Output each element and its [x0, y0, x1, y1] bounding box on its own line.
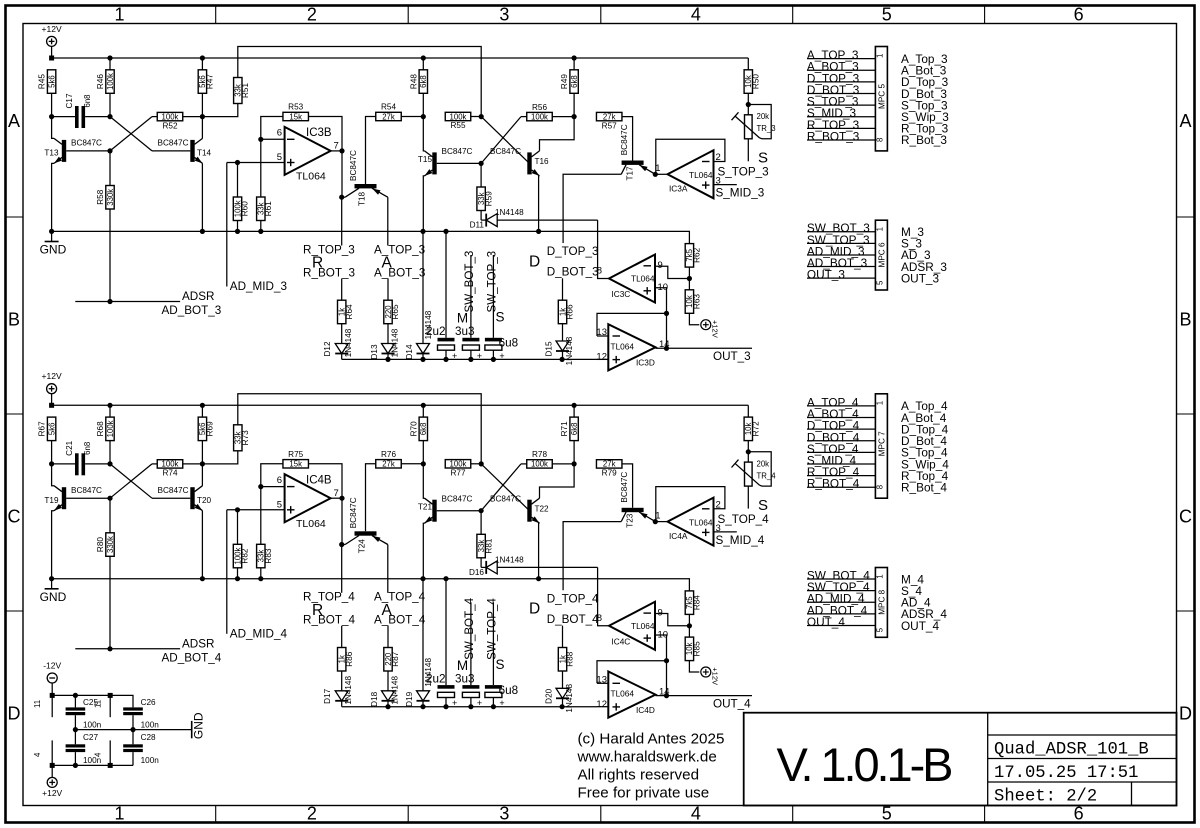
- svg-text:SW_TOP_4: SW_TOP_4: [486, 598, 499, 660]
- svg-text:S: S: [496, 310, 505, 325]
- net label R_TOP_3: [303, 197, 355, 256]
- resistor R88 1k: [558, 648, 574, 689]
- pin 4 stub TL064 (IC3): [33, 740, 52, 765]
- svg-text:1: 1: [114, 804, 124, 824]
- resistor R79 27k: [596, 460, 632, 508]
- capacitor 2u2 (M cap) channel 3: [426, 231, 457, 362]
- svg-text:R70: R70: [409, 421, 418, 436]
- trimmer TR_4 20k: [732, 452, 777, 509]
- svg-text:M: M: [457, 311, 468, 326]
- wire MPC 6 pin 3 AD_MID_3: [807, 244, 876, 258]
- power +12V supply (caps): [42, 763, 62, 798]
- svg-text:V. 1.0.1-B: V. 1.0.1-B: [777, 738, 954, 791]
- wire pin3 IC3A S_MID_3: [714, 184, 737, 186]
- wire pin3 IC4A S_MID_4: [714, 531, 737, 533]
- svg-text:7: 7: [334, 141, 339, 152]
- wire AD_MID_3: [226, 163, 228, 287]
- diode D11 1N4148: [470, 208, 598, 230]
- svg-text:OUT_4: OUT_4: [807, 615, 845, 629]
- svg-text:D: D: [1179, 704, 1192, 724]
- svg-text:3u3: 3u3: [455, 672, 475, 685]
- svg-text:IC3C: IC3C: [611, 289, 630, 299]
- svg-text:C21: C21: [65, 440, 74, 455]
- svg-text:T14: T14: [197, 149, 212, 158]
- svg-text:T23: T23: [626, 513, 635, 528]
- transistor T14 BC847C: [158, 117, 212, 232]
- transistor T24 BC847C rotated: [342, 464, 388, 554]
- svg-text:S: S: [758, 497, 768, 514]
- resistor R57 27k: [596, 112, 632, 160]
- connector MPC 7: [875, 394, 887, 498]
- svg-text:SW_BOT_3: SW_BOT_3: [463, 251, 476, 313]
- svg-text:330k: 330k: [106, 189, 115, 206]
- svg-text:R_TOP_4: R_TOP_4: [303, 591, 355, 604]
- wire MPC 7 pin 5 S_TOP_4: [807, 442, 876, 456]
- svg-text:R49: R49: [560, 74, 569, 89]
- resistor R65 220: [384, 300, 400, 343]
- wire inverting input pin6 IC4B: [258, 484, 284, 489]
- resistor R64 1k: [338, 300, 354, 343]
- op-amp IC4A TL064: [655, 498, 721, 546]
- wire pin12 stub IC3D: [597, 358, 608, 360]
- resistor R85 10k: [685, 626, 701, 672]
- transistor T22 BC847C: [490, 464, 574, 579]
- svg-text:OUT_3: OUT_3: [901, 271, 939, 285]
- svg-text:IC3D: IC3D: [636, 358, 655, 368]
- svg-text:R54: R54: [381, 103, 396, 112]
- svg-text:100k: 100k: [106, 73, 115, 90]
- svg-text:2: 2: [307, 5, 317, 25]
- net label D_BOT_4 wire: [562, 626, 564, 648]
- svg-text:R76: R76: [381, 450, 396, 459]
- wire MPC 5 pin 3 D_TOP_3: [807, 71, 876, 85]
- diode D16 1N4148: [469, 555, 598, 577]
- svg-text:All rights reserved: All rights reserved: [578, 767, 700, 784]
- svg-text:S: S: [496, 657, 505, 672]
- capacitor C25 100n: [66, 695, 102, 729]
- node collector T13: [49, 114, 54, 119]
- svg-text:D_TOP_4: D_TOP_4: [547, 592, 599, 605]
- net label D_BOT_3 wire: [562, 278, 564, 300]
- diode D18 1N4148: [370, 676, 400, 710]
- svg-text:BC847C: BC847C: [490, 147, 521, 156]
- svg-text:1N4148: 1N4148: [495, 555, 524, 564]
- svg-text:BC847C: BC847C: [620, 124, 629, 155]
- svg-text:OUT_4: OUT_4: [901, 619, 939, 633]
- svg-text:3: 3: [499, 804, 509, 824]
- svg-text:R55: R55: [450, 121, 465, 130]
- op-amp IC3C TL064: [597, 255, 668, 303]
- svg-text:ADSR: ADSR: [182, 637, 214, 650]
- wire D11 to pin8 IC3C: [598, 220, 610, 278]
- svg-text:+12V: +12V: [711, 320, 720, 338]
- wire pin13 IC4D feedback: [597, 661, 667, 684]
- op-amp IC3D TL064: [596, 324, 669, 370]
- svg-text:TL064: TL064: [296, 518, 326, 530]
- svg-text:+12V: +12V: [711, 667, 720, 685]
- pin 11 stub TL064 (IC4): [94, 695, 111, 717]
- op-amp IC4C TL064: [597, 602, 668, 650]
- connector MPC 5: [875, 47, 887, 151]
- wire pin13 IC3D feedback: [597, 313, 667, 336]
- svg-text:T22: T22: [535, 504, 550, 513]
- svg-text:AD_MID_4: AD_MID_4: [230, 627, 288, 640]
- resistor R47 5k6: [198, 58, 214, 117]
- transistor T21 BC847C: [418, 464, 484, 579]
- svg-text:D: D: [529, 601, 540, 618]
- svg-text:5: 5: [875, 627, 884, 632]
- svg-text:R67: R67: [38, 421, 47, 436]
- wire MPC 8 pin 2 SW_TOP_4: [807, 580, 876, 594]
- copyright text: [577, 731, 725, 802]
- wire inverting input pin6 IC3B: [258, 137, 284, 142]
- trimmer TR_3 20k: [732, 105, 776, 162]
- wire output pin1 IC4A to T23: [653, 519, 667, 524]
- svg-text:6n8: 6n8: [83, 94, 92, 107]
- svg-text:6k8: 6k8: [419, 423, 428, 436]
- svg-text:1N4148: 1N4148: [391, 328, 400, 357]
- diode D15 1N4148: [545, 336, 575, 365]
- svg-text:1N4148: 1N4148: [495, 208, 524, 217]
- power +12V channel 4: [42, 371, 62, 408]
- svg-text:IC3B: IC3B: [306, 127, 332, 139]
- wire emitter T23 to D_TOP_4: [563, 522, 621, 591]
- wire MPC 6 pin 5 OUT_3: [807, 268, 876, 282]
- wire output pin14 IC4D OUT_4: [656, 693, 753, 698]
- wire output pin7 IC3B: [331, 148, 345, 200]
- wire pin9 IC4C to R62/R63 node: [655, 614, 692, 629]
- svg-text:T20: T20: [197, 496, 212, 505]
- diode D12 1N4148: [323, 328, 353, 359]
- svg-text:R46: R46: [96, 74, 105, 89]
- svg-text:R64: R64: [345, 304, 354, 319]
- svg-text:R50: R50: [752, 74, 761, 89]
- resistor R69 5k6: [198, 405, 214, 464]
- svg-text:5k6: 5k6: [47, 423, 56, 436]
- svg-text:R79: R79: [602, 469, 617, 478]
- svg-text:R71: R71: [560, 421, 569, 436]
- svg-text:4: 4: [691, 5, 701, 25]
- svg-text:R60: R60: [241, 201, 250, 216]
- wire cross-coupling T15/T16: [481, 117, 529, 164]
- svg-text:4: 4: [94, 752, 103, 757]
- svg-text:100k: 100k: [531, 112, 548, 121]
- wire pin13 stub IC4D: [597, 682, 608, 684]
- svg-text:27k: 27k: [382, 112, 395, 121]
- svg-text:A_BOT_4: A_BOT_4: [374, 614, 426, 627]
- svg-text:R53: R53: [288, 103, 303, 112]
- svg-text:BC847C: BC847C: [158, 486, 189, 495]
- svg-text:S_MID_4: S_MID_4: [716, 534, 765, 547]
- svg-text:100n: 100n: [83, 721, 102, 730]
- svg-text:SW_TOP_3: SW_TOP_3: [486, 251, 499, 313]
- svg-text:-12V: -12V: [43, 661, 61, 671]
- resistor R52 100k: [157, 112, 202, 130]
- capacitor C21 6n8: [52, 440, 110, 475]
- svg-text:OUT_3: OUT_3: [713, 350, 751, 363]
- svg-text:AD_MID_3: AD_MID_3: [230, 280, 287, 293]
- svg-text:8: 8: [875, 485, 884, 489]
- svg-text:R_Bot_4: R_Bot_4: [901, 481, 947, 495]
- svg-text:11: 11: [33, 700, 42, 708]
- svg-text:R75: R75: [288, 450, 303, 459]
- pin 4 stub TL064 (IC4): [94, 740, 111, 765]
- svg-text:6: 6: [277, 128, 282, 139]
- resistor R84 7k5: [685, 591, 701, 626]
- svg-text:BC847C: BC847C: [620, 472, 629, 503]
- svg-text:6k8: 6k8: [570, 75, 579, 88]
- resistor R74 100k: [157, 460, 202, 478]
- wire MPC 7 pin 6 S_MID_4: [807, 454, 876, 468]
- svg-text:12: 12: [596, 352, 607, 363]
- svg-text:1N4148: 1N4148: [391, 676, 400, 705]
- wire MPC 5 pin 2 A_BOT_3: [807, 60, 876, 74]
- svg-text:A: A: [1179, 111, 1191, 131]
- svg-text:OUT_3: OUT_3: [807, 268, 845, 282]
- svg-text:B: B: [8, 310, 20, 330]
- svg-text:(c) Harald Antes 2025: (c) Harald Antes 2025: [578, 731, 725, 748]
- svg-text:2: 2: [307, 804, 317, 824]
- wire pin9 IC3C to R62/R63 node: [655, 266, 692, 281]
- wire MPC 6 pin 4 AD_BOT_3: [807, 256, 876, 270]
- svg-text:1N4148: 1N4148: [344, 328, 353, 357]
- svg-text:S: S: [758, 150, 768, 167]
- svg-text:TL064: TL064: [611, 341, 635, 351]
- svg-text:9: 9: [658, 260, 663, 271]
- resistor R56 100k: [527, 103, 577, 122]
- svg-text:IC4B: IC4B: [306, 474, 332, 486]
- svg-text:R65: R65: [391, 304, 400, 319]
- svg-text:5: 5: [882, 804, 892, 824]
- svg-text:6k8: 6k8: [419, 75, 428, 88]
- wire MPC 7 pin 2 A_BOT_4: [807, 407, 876, 421]
- resistor R76 27k: [376, 450, 426, 469]
- svg-text:T19: T19: [44, 496, 59, 505]
- svg-text:+12V: +12V: [42, 24, 62, 34]
- resistor R62 7k5: [685, 244, 701, 279]
- capacitor C26 100n: [123, 698, 159, 729]
- wire pin10 IC3C: [655, 288, 669, 349]
- svg-text:100k: 100k: [450, 112, 467, 121]
- wire -12V rail: [52, 693, 133, 708]
- node collector T14: [200, 114, 205, 119]
- svg-text:T21: T21: [418, 502, 433, 511]
- svg-text:330k: 330k: [106, 536, 115, 553]
- svg-text:GND: GND: [192, 712, 206, 739]
- svg-text:IC4D: IC4D: [636, 705, 655, 715]
- wire MPC 5 pin 5 S_TOP_3: [807, 95, 876, 109]
- wire MPC 8 pin 5 OUT_4: [807, 615, 876, 629]
- diode D13 1N4148: [370, 328, 400, 362]
- wire emitter T17 to D_TOP_3: [563, 174, 621, 243]
- resistor R70 6k8: [409, 405, 428, 464]
- svg-text:T24: T24: [358, 539, 367, 554]
- svg-text:1N4148: 1N4148: [565, 336, 574, 365]
- wire non-inverting input pin5 IC3B: [227, 160, 285, 165]
- wire MPC 7 pin 3 D_TOP_4: [807, 419, 876, 433]
- resistor R58 330k: [96, 151, 115, 302]
- svg-text:8: 8: [597, 266, 602, 277]
- svg-text:D20: D20: [545, 688, 554, 703]
- diode D20 1N4148: [545, 684, 575, 713]
- resistor R86 1k: [338, 648, 354, 691]
- wire MPC 7 pin 1 A_TOP_4: [807, 395, 876, 409]
- ground symbol (caps): [191, 721, 193, 738]
- net label A_TOP_4: [374, 545, 426, 604]
- net label A_TOP_3: [374, 197, 425, 256]
- wire AD_MID_4: [226, 510, 228, 634]
- resistor R71 6k8: [560, 405, 579, 464]
- wire MPC 5 pin 1 A_TOP_3: [807, 48, 876, 62]
- wire cross-coupling T13/T14: [107, 117, 190, 154]
- svg-text:D_TOP_3: D_TOP_3: [547, 245, 599, 258]
- svg-text:TL064: TL064: [631, 621, 655, 631]
- svg-text:D_BOT_4: D_BOT_4: [547, 613, 599, 626]
- wire cross-coupling T21/T22: [481, 464, 529, 511]
- svg-text:D19: D19: [405, 691, 414, 706]
- svg-text:www.haraldswerk.de: www.haraldswerk.de: [577, 749, 717, 766]
- svg-text:R59: R59: [484, 191, 493, 206]
- svg-text:6: 6: [1074, 5, 1084, 25]
- svg-text:S_TOP_3: S_TOP_3: [718, 166, 769, 179]
- svg-text:D11: D11: [470, 221, 485, 230]
- capacitor 3u3 (M cap) channel 3: [455, 251, 482, 362]
- svg-text:R68: R68: [96, 421, 105, 436]
- op-amp IC3B TL064: [277, 127, 339, 183]
- wire MPC 5 pin 8 R_BOT_3: [807, 129, 876, 143]
- capacitor C28 100n: [123, 730, 159, 766]
- svg-text:C26: C26: [141, 698, 156, 707]
- wire cross-coupling T19/T20: [107, 464, 190, 501]
- svg-text:R84: R84: [693, 595, 702, 610]
- capacitor 6u8 (S cap) channel 3: [485, 251, 518, 362]
- svg-text:R52: R52: [162, 121, 177, 130]
- wire MPC 7 pin 8 R_BOT_4: [807, 477, 876, 491]
- svg-text:R51: R51: [241, 83, 250, 98]
- svg-text:D16: D16: [469, 568, 484, 577]
- svg-text:TL064: TL064: [689, 517, 713, 527]
- resistor R83 33k: [257, 487, 273, 579]
- svg-text:2u2: 2u2: [426, 325, 446, 338]
- svg-text:3: 3: [499, 5, 509, 25]
- svg-text:R47: R47: [206, 74, 215, 89]
- svg-text:100n: 100n: [141, 756, 160, 765]
- power +12V at R63: [701, 320, 720, 338]
- connector MPC 8: [875, 568, 887, 638]
- svg-text:GND: GND: [40, 243, 67, 257]
- svg-text:MPC 5: MPC 5: [877, 84, 886, 109]
- resistor R77 100k: [445, 460, 484, 478]
- svg-text:R_BOT_3: R_BOT_3: [303, 266, 355, 279]
- svg-text:6u8: 6u8: [499, 684, 519, 697]
- svg-text:A_BOT_3: A_BOT_3: [374, 266, 425, 279]
- wire MPC 8 pin 4 AD_BOT_4: [807, 603, 876, 617]
- resistor R50 10k: [744, 70, 760, 107]
- svg-text:12: 12: [596, 699, 607, 710]
- power +12V at R85: [701, 667, 720, 685]
- transistor T16 BC847C: [490, 117, 574, 232]
- resistor R54 27k: [376, 103, 426, 122]
- svg-text:6: 6: [277, 475, 282, 486]
- svg-text:R58: R58: [96, 189, 105, 204]
- svg-text:1N4148: 1N4148: [565, 684, 574, 713]
- svg-text:C: C: [1179, 507, 1192, 527]
- capacitor C27 100n: [66, 730, 102, 766]
- resistor R68 100k: [96, 405, 115, 464]
- svg-text:IC3A: IC3A: [669, 184, 688, 194]
- resistor R66 1k: [558, 300, 574, 341]
- svg-text:B: B: [1179, 310, 1191, 330]
- svg-text:27k: 27k: [603, 460, 616, 469]
- svg-text:R78: R78: [532, 450, 547, 459]
- svg-text:ADSR: ADSR: [182, 290, 214, 303]
- capacitor 2u2 (M cap) channel 4: [426, 579, 457, 710]
- wire MPC 7 pin 4 D_BOT_4: [807, 430, 876, 444]
- svg-text:1: 1: [875, 227, 884, 231]
- svg-text:Quad_ADSR_101_B: Quad_ADSR_101_B: [994, 741, 1149, 760]
- svg-text:100k: 100k: [531, 460, 548, 469]
- wire output pin14 IC3D OUT_3: [656, 346, 753, 351]
- svg-text:R48: R48: [409, 74, 418, 89]
- svg-text:TL064: TL064: [296, 171, 326, 183]
- node base-left junction: [107, 114, 112, 119]
- resistor R55 100k: [445, 112, 484, 130]
- svg-text:100k: 100k: [162, 112, 179, 121]
- svg-text:R85: R85: [693, 641, 702, 656]
- net label R_TOP_4: [303, 545, 355, 604]
- svg-text:9: 9: [658, 607, 663, 618]
- title block box: [744, 713, 1177, 806]
- svg-text:C17: C17: [65, 93, 74, 108]
- wire bottom rail channel 3: [342, 358, 597, 360]
- transistor T23 BC847C rotated: [620, 472, 655, 528]
- svg-text:8: 8: [597, 613, 602, 624]
- resistor R72 10k: [744, 417, 760, 454]
- svg-text:R88: R88: [566, 651, 575, 666]
- wire +12V rail (caps): [52, 763, 133, 768]
- svg-text:R_BOT_3: R_BOT_3: [807, 129, 860, 143]
- svg-text:BC847C: BC847C: [442, 494, 473, 503]
- svg-text:A: A: [8, 111, 20, 131]
- wire GND rail: [73, 727, 192, 732]
- svg-text:R45: R45: [38, 74, 47, 89]
- power +12V channel 3: [42, 24, 62, 61]
- svg-text:T13: T13: [44, 149, 59, 158]
- svg-text:R62: R62: [693, 247, 702, 262]
- net label A_BOT_4: [374, 614, 426, 648]
- wire MPC 5 pin 7 R_TOP_3: [807, 118, 876, 132]
- node base-left junction: [107, 461, 112, 466]
- svg-text:TL064: TL064: [611, 689, 635, 699]
- resistor R60 100k: [233, 163, 249, 232]
- diode D17 1N4148: [323, 676, 353, 707]
- svg-text:5: 5: [882, 5, 892, 25]
- svg-text:100n: 100n: [141, 721, 160, 730]
- resistor R81 33k: [477, 511, 493, 568]
- resistor R78 100k: [527, 450, 577, 469]
- svg-text:6: 6: [1074, 804, 1084, 824]
- svg-text:S_MID_3: S_MID_3: [716, 187, 765, 200]
- svg-text:R86: R86: [345, 651, 354, 666]
- svg-text:R77: R77: [450, 469, 465, 478]
- svg-text:Free for private use: Free for private use: [578, 785, 710, 802]
- svg-text:1N4148: 1N4148: [344, 676, 353, 705]
- op-amp IC3A TL064: [655, 150, 721, 198]
- svg-text:D14: D14: [405, 344, 414, 359]
- resistor R75 15k feedback: [261, 450, 342, 498]
- svg-text:TR_3: TR_3: [757, 124, 776, 133]
- svg-text:5: 5: [875, 280, 884, 285]
